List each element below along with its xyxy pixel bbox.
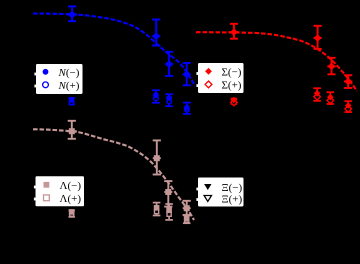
Sigma pair 2 error bar [313, 88, 321, 101]
Lambda(+) small marker 2 [155, 209, 159, 213]
legend tick notches Sigma [196, 72, 198, 75]
Sigma(-) point 3 error bar [327, 58, 335, 75]
N pair 2 error bar [152, 90, 160, 103]
N(-) small marker 1 [69, 97, 75, 103]
N(-) point 2 error bar [152, 20, 160, 46]
Sigma pair 1 error bar [231, 99, 237, 104]
legend marker Λ(+) open [44, 195, 50, 201]
N(+) small marker 1 [69, 100, 74, 105]
Lambda(-) marker 2 [154, 155, 160, 161]
N(-) marker 1 [69, 12, 75, 18]
Sigma(-) point 1 error bar [229, 24, 239, 39]
Lambda(-) point 1 error bar [67, 121, 77, 139]
Lambda(-) marker 1 [69, 128, 75, 134]
Lambda pair 2 error bar [153, 203, 161, 216]
legend box Sigma [198, 63, 244, 93]
legend box N [36, 64, 83, 94]
legend box Xi [198, 178, 244, 207]
svg-text:Ξ(+): Ξ(+) [222, 194, 243, 206]
Lambda(-) marker 3 [165, 189, 171, 195]
legend tick notches N [34, 73, 36, 76]
legend marker Σ(+) open [205, 81, 212, 88]
Sigma(-) point 2 error bar [314, 26, 322, 49]
Sigma(-) marker 2 [314, 34, 322, 42]
Sigma pair 4 error bar [344, 101, 352, 112]
legend marker N(-) filled [43, 69, 49, 75]
Sigma(-) small marker 3 [327, 94, 334, 101]
rosybrown dashed model curve for Lambda [33, 129, 194, 220]
svg-text:N(+): N(+) [58, 80, 80, 92]
Sigma(-) small marker 2 [314, 90, 321, 97]
legend marker Ξ(+) open [204, 196, 211, 202]
legend marker Ξ(-) filled [204, 184, 211, 190]
Lambda pair 3 error bar [165, 204, 173, 220]
Lambda(-) point 2 error bar [153, 140, 161, 174]
N pair 3 error bar [165, 94, 173, 106]
Lambda pair 1 error bar [69, 211, 75, 217]
red dashed model curve for Sigma [196, 32, 357, 91]
Lambda(+) small marker 4 [185, 218, 189, 222]
N pair 1 error bar [68, 98, 74, 105]
svg-text:Ξ(−): Ξ(−) [222, 182, 243, 194]
Lambda pair 4 error bar [183, 215, 191, 223]
Sigma(-) point 4 error bar [344, 75, 352, 88]
legend tick notches Xi [196, 188, 198, 191]
Lambda(-) small marker 1 [69, 209, 75, 215]
N(-) small marker 2 [153, 92, 159, 98]
Sigma(-) small marker 1 [231, 97, 238, 104]
Sigma(-) marker 4 [344, 78, 352, 86]
Sigma(+) small marker 3 [327, 97, 334, 104]
Sigma(+) small marker 2 [314, 93, 321, 100]
legend tick notches Lambda [34, 186, 36, 189]
N(-) small marker 4 [184, 105, 190, 111]
svg-text:Σ(+): Σ(+) [222, 80, 242, 92]
Sigma(-) marker 1 [230, 28, 238, 36]
N(+) small marker 3 [167, 99, 172, 104]
Lambda(+) small marker 3 [167, 212, 171, 216]
N pair 4 error bar [183, 103, 191, 114]
N(-) marker 4 [184, 71, 190, 77]
Lambda(-) small marker 4 [184, 216, 190, 222]
Sigma(+) small marker 4 [345, 106, 352, 113]
legend box Lambda [36, 176, 85, 206]
legend marker N(+) open [43, 82, 49, 88]
N(+) small marker 4 [185, 107, 190, 112]
Sigma(-) small marker 4 [345, 102, 352, 109]
legend marker Σ(-) filled [205, 68, 212, 75]
blue dashed model curve for N [33, 14, 195, 87]
N(-) point 3 error bar [165, 52, 173, 76]
svg-text:Λ(−): Λ(−) [60, 180, 82, 192]
Lambda(-) small marker 3 [166, 208, 172, 214]
Lambda(+) small marker 1 [70, 212, 74, 216]
N(-) small marker 3 [166, 95, 172, 101]
N(+) small marker 2 [154, 96, 159, 101]
Sigma pair 3 error bar [327, 92, 335, 104]
Lambda(-) point 4 error bar [183, 201, 191, 215]
N(-) point 4 error bar [183, 63, 191, 85]
N(-) marker 3 [166, 61, 172, 67]
svg-text:N(−): N(−) [58, 67, 80, 79]
svg-text:Λ(+): Λ(+) [60, 193, 82, 205]
N(-) point 1 error bar [67, 6, 77, 21]
Lambda(-) small marker 2 [154, 205, 160, 211]
N(-) marker 2 [153, 33, 159, 39]
Sigma(-) marker 3 [328, 63, 336, 71]
Sigma(+) small marker 1 [231, 99, 238, 106]
Lambda(-) marker 4 [184, 205, 190, 211]
legend marker Λ(-) filled [44, 182, 50, 188]
Lambda(-) point 3 error bar [164, 181, 172, 207]
svg-text:Σ(−): Σ(−) [222, 67, 242, 79]
